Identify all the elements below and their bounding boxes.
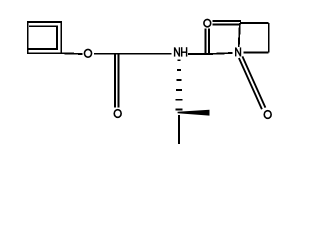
atom label N=O oxygen (bottom right) [264, 111, 271, 119]
carbamate C=O double bond (vertical down) [114, 55, 116, 108]
wire bond stereocenter down to terminal methyl [178, 115, 180, 144]
wire bond ring to ester O [61, 52, 82, 55]
atom label carbamate =O [114, 110, 121, 118]
wire bond amide C to ring N [207, 53, 233, 54]
wire bond NH to amide C [188, 53, 207, 55]
atom label ring N [236, 47, 241, 56]
azetidinone ring bottom edge [243, 51, 268, 53]
atom label amide =O (top) [204, 19, 211, 26]
wire bond ester O through carbamate C to NH [94, 53, 171, 55]
beta-lactam ring C=O double bond (horizontal) [212, 20, 241, 22]
cyclobutadiene ring inner double-bond lines (top, right, bottom) [29, 26, 57, 49]
atom label NH [175, 47, 180, 56]
atom label ester O [84, 49, 91, 57]
azetidinone ring right edge [268, 23, 270, 52]
hashed wedge bond NH to stereocenter [175, 60, 182, 109]
N=O double bond (diagonal) [239, 58, 262, 109]
azetidinone ring left edge [239, 23, 240, 47]
amide C=O double bond (vertical up) [205, 29, 207, 54]
solid wedge bond stereocenter to methyl [178, 110, 210, 116]
azetidinone ring top edge [240, 22, 269, 24]
cyclobutadiene ring outer square [28, 22, 61, 53]
